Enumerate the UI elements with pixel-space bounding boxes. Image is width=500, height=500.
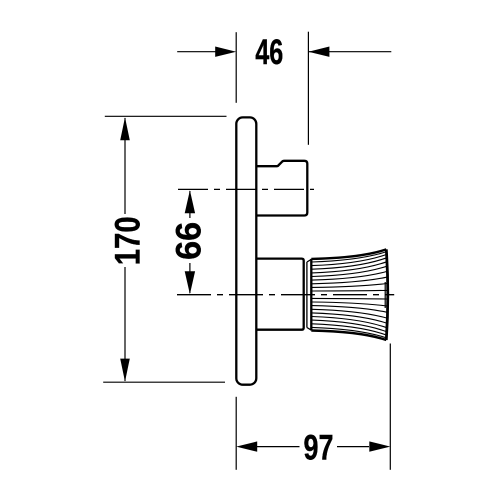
knob outline xyxy=(311,249,388,340)
svg-text:66: 66 xyxy=(169,222,208,260)
svg-text:170: 170 xyxy=(108,216,147,265)
knob flutes (knurl lines) xyxy=(312,252,387,338)
valve stem outline (lower) xyxy=(256,259,304,330)
escutcheon plate outline (side view) xyxy=(236,117,256,384)
centerline lower (knob axis) xyxy=(177,294,394,296)
dimension 46 xyxy=(177,32,391,145)
svg-text:46: 46 xyxy=(255,33,283,72)
dimension 66 xyxy=(189,191,191,293)
centerline upper (diverter axis) xyxy=(178,188,314,190)
knob neck ring xyxy=(307,260,311,330)
diverter stub outline (upper protrusion) xyxy=(256,161,307,216)
dimension 97 xyxy=(236,344,390,470)
white body fills xyxy=(236,117,387,384)
svg-text:97: 97 xyxy=(304,428,334,467)
dimension 170 xyxy=(103,116,226,382)
